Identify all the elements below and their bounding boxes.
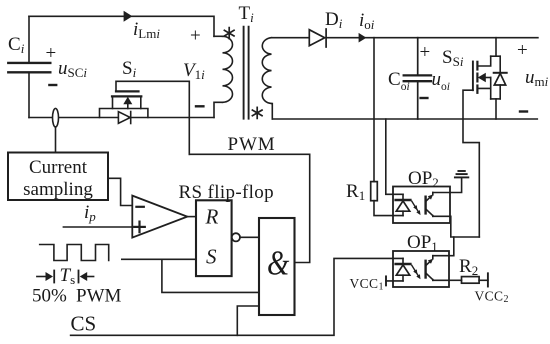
wire rail to OP2 LED cathode [386, 119, 403, 194]
svg-text:Current: Current [29, 157, 88, 178]
wire comparator to R [187, 216, 196, 218]
wire uoi sense to R1 [373, 38, 375, 182]
wire loop bottom [491, 98, 501, 100]
wire clock to S [122, 258, 196, 260]
svg-text:CS: CS [71, 312, 97, 336]
svg-text:Ts: Ts [60, 265, 76, 287]
svg-text:PWM: PWM [228, 134, 276, 155]
svg-text:+: + [420, 42, 431, 63]
svg-text:umi: umi [525, 67, 549, 89]
transformer Ti primary winding [214, 36, 233, 117]
diode body Si [118, 112, 130, 124]
label minus uoi [421, 97, 428, 99]
svg-text:iLmi: iLmi [133, 19, 160, 41]
svg-text:Coi: Coi [388, 69, 410, 93]
light arrows OP1 [412, 265, 421, 279]
svg-text:50%PWM: 50%PWM [32, 286, 122, 307]
diode Di [309, 29, 326, 47]
svg-text:&: & [267, 243, 289, 282]
svg-text:+: + [46, 43, 57, 64]
label minus input [136, 206, 143, 208]
box OP2 [393, 187, 450, 224]
svg-text:V1i: V1i [183, 60, 205, 82]
wire drain lead [495, 38, 497, 57]
block RS flip-flop [196, 200, 232, 276]
block Current sampling [8, 153, 108, 201]
wire source lead [495, 99, 497, 119]
gate bar [472, 62, 474, 91]
capacitor Ci [8, 63, 50, 72]
wire ip input [63, 226, 132, 228]
svg-text:uoi: uoi [432, 69, 450, 93]
svg-text:Ti: Ti [239, 3, 255, 25]
wire VCC1 to OP1 [386, 280, 403, 282]
svg-text:S: S [206, 245, 217, 269]
inverter bubble [232, 233, 240, 241]
transistor Si MOSFET [100, 91, 148, 117]
wire Ci top lead [28, 16, 30, 63]
wire sensor to box [55, 127, 57, 153]
wire channel drain branch [478, 56, 491, 66]
wire gate SSi to OP2 output [463, 90, 479, 237]
channel bar [112, 95, 141, 97]
clock square wave [40, 245, 109, 261]
wire loop top [491, 55, 501, 57]
svg-text:OP2: OP2 [408, 168, 439, 190]
svg-text:uSCi: uSCi [58, 58, 87, 80]
channel segments [476, 62, 478, 70]
wire AND output to PWM [189, 154, 309, 262]
wire OP1 emitter to R2 [449, 279, 462, 281]
wire top rail secondary [272, 37, 310, 39]
diode body SSi [494, 56, 507, 99]
body arrow SSi [485, 77, 491, 79]
svg-text:VCC2: VCC2 [475, 289, 509, 306]
svg-text:OP1: OP1 [407, 232, 438, 254]
svg-text:Di: Di [325, 9, 343, 31]
wire R2 to VCC2 [479, 279, 488, 281]
svg-text:sampling: sampling [23, 179, 93, 200]
svg-text:Si: Si [122, 58, 137, 80]
wire Q to AND [240, 236, 259, 238]
wire bottom rail secondary [272, 118, 537, 120]
resistor R2 [462, 277, 480, 284]
transistor SSi MOSFET [473, 38, 500, 119]
wire source step left [100, 109, 148, 118]
wire OP2 collector to node [450, 216, 479, 237]
svg-text:RS flip-flop: RS flip-flop [179, 182, 275, 203]
label V1i minus [196, 105, 203, 107]
wire clock branch to AND [162, 259, 259, 292]
svg-text:R1: R1 [346, 181, 365, 203]
wire top rail primary [29, 16, 214, 36]
svg-text:VCC1: VCC1 [350, 276, 384, 293]
phototransistor OP2 [424, 197, 426, 214]
wire source vertical [112, 97, 114, 108]
svg-text:ip: ip [84, 202, 96, 224]
arrowhead iLmi [124, 11, 133, 22]
transformer Ti secondary winding [262, 38, 272, 119]
terminal VCC2 [487, 273, 489, 286]
polarity dot primary [224, 28, 234, 39]
svg-text:SSi: SSi [442, 47, 464, 69]
svg-text:R: R [205, 205, 219, 229]
capacitor Coi [404, 38, 431, 119]
resistor R1 [371, 182, 378, 201]
transformer core [244, 27, 249, 119]
body arrow [127, 103, 129, 109]
optocoupler OP2 [393, 187, 450, 224]
gate AND [259, 218, 295, 315]
svg-text:+: + [517, 40, 528, 61]
comparator U1 current comparator [132, 196, 187, 238]
LED OP2 [402, 194, 404, 200]
svg-text:Ci: Ci [8, 34, 25, 56]
ground [455, 171, 468, 177]
wire drain vertical [140, 97, 142, 108]
arrowhead ioi [359, 33, 367, 43]
current sensor ellipse [53, 108, 59, 127]
label plus input [134, 226, 145, 228]
wire bottom rail primary [29, 117, 214, 119]
polarity dot secondary [252, 107, 262, 118]
wire CS line [71, 258, 403, 335]
wire sampling box to comparator minus input [108, 178, 132, 205]
gate bar [116, 90, 139, 92]
wire R1 to OP2 LED anode [374, 201, 403, 216]
label minus umi [520, 110, 527, 112]
LED OP1 [402, 258, 404, 264]
wire node to OP1 collector [449, 237, 454, 256]
wire channel source branch [478, 88, 491, 99]
label minus uSCi [49, 84, 56, 86]
wire gate Si to PWM [116, 81, 189, 154]
phototransistor OP1 [424, 261, 426, 278]
wire Ci bottom lead [28, 72, 30, 117]
light arrows OP2 [412, 201, 421, 215]
svg-text:R2: R2 [459, 256, 478, 278]
optocoupler OP1 [393, 251, 449, 287]
wire OP2 emitter to ground [450, 179, 462, 193]
label Ts with arrows [37, 271, 94, 283]
svg-text:+: + [190, 26, 201, 47]
terminal VCC1 [385, 276, 387, 285]
box OP1 [393, 251, 449, 287]
wire AND input3 [237, 306, 259, 335]
svg-text:ioi: ioi [359, 10, 375, 32]
